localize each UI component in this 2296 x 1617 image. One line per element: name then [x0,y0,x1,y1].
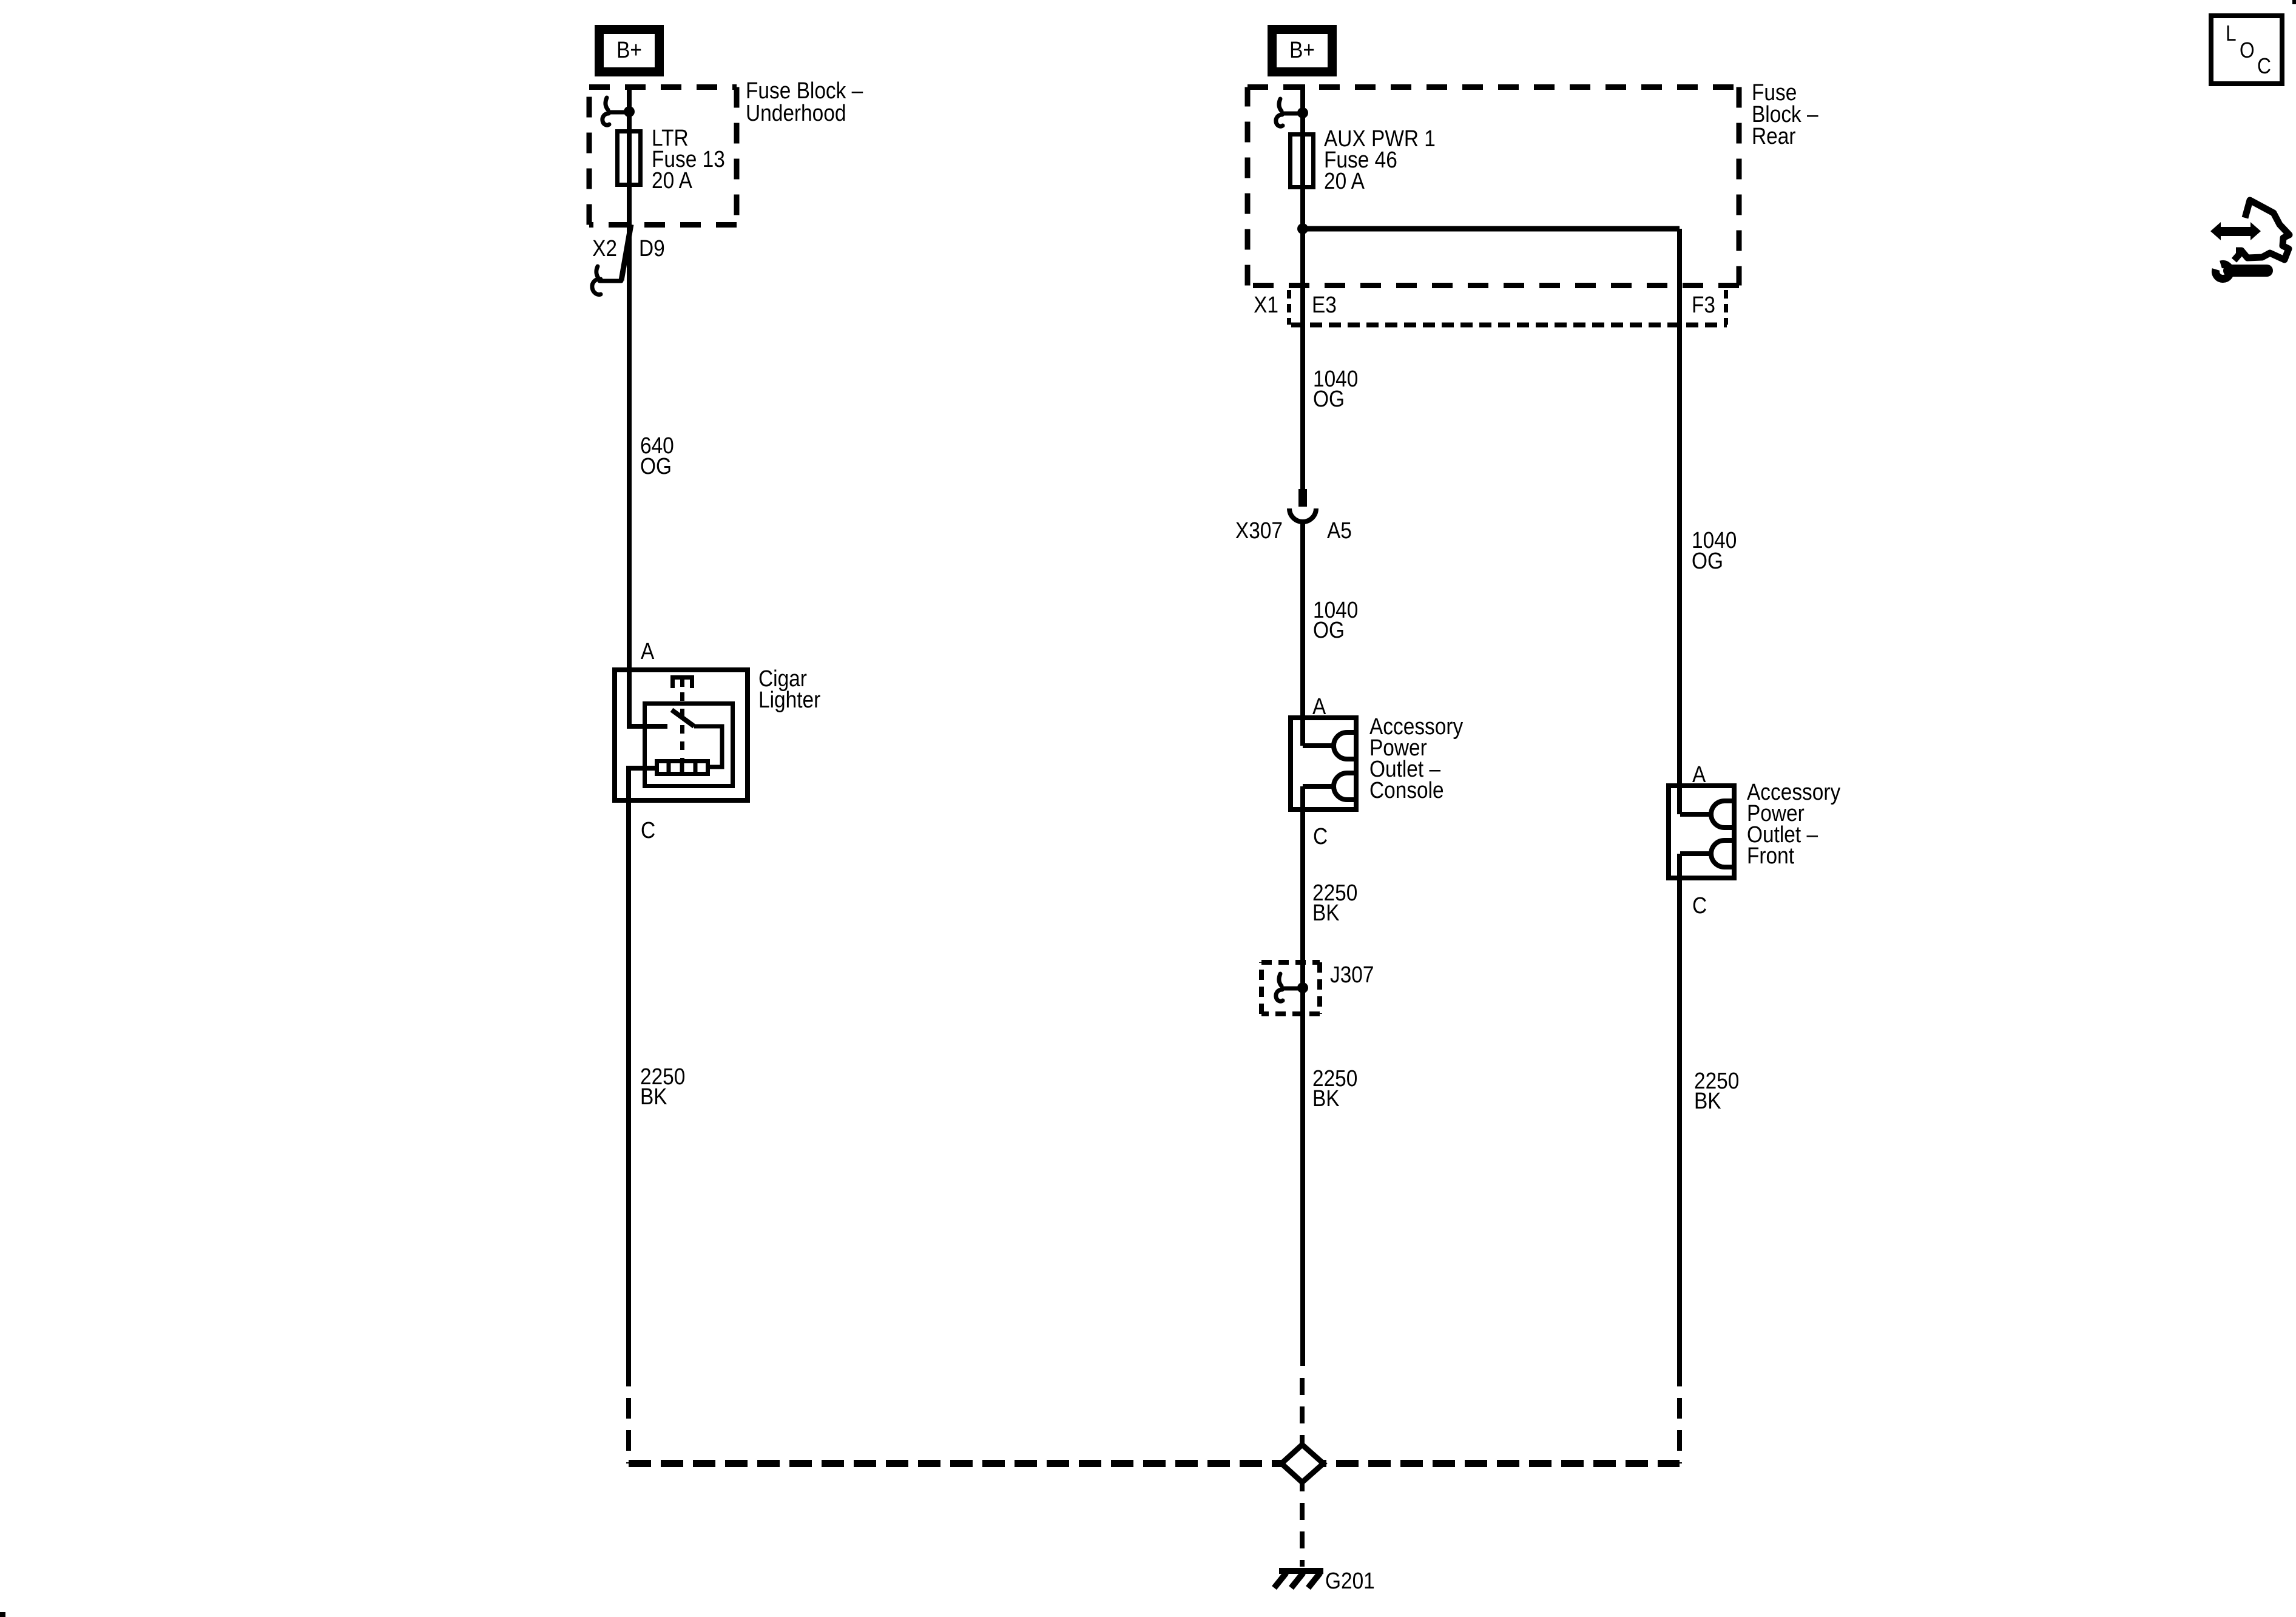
accessory power outlet - front [1669,786,1734,878]
svg-text:Front: Front [1747,843,1794,868]
svg-text:BK: BK [640,1084,667,1109]
svg-text:D9: D9 [639,235,665,261]
dashed ground wire segment (right vertical) [1677,1398,1682,1463]
splice J307 [1261,962,1374,1014]
wire label 1040 OG (console, lower) [1313,597,1358,643]
wire: branch to front outlet (horizontal in rear block) [1303,226,1680,232]
svg-text:OG: OG [1692,548,1723,573]
svg-text:F3: F3 [1692,292,1715,317]
accessory power outlet - console [1291,718,1356,809]
svg-text:X2: X2 [592,235,617,261]
svg-text:C: C [2257,54,2271,78]
wire label 1040 OG (front) [1692,527,1737,573]
svg-text:C: C [1692,893,1707,918]
wire: B+ rear feed vertical (upper) [1300,84,1305,489]
wire label 640 OG [640,433,674,479]
cigar lighter component [615,670,748,800]
label Fuse Block - Rear [1752,79,1818,149]
label Fuse Block - Underhood [746,78,863,126]
wire label 2250 BK (console, lower) [1312,1065,1357,1111]
wire: front outlet to ground (right vertical, lower) [1677,854,1682,1386]
fuse block - rear dashed outline [1248,87,1739,286]
svg-text:X307: X307 [1235,518,1283,543]
label Accessory Power Outlet - Front [1747,779,1840,868]
service information icon (arrows and wrench) [2210,200,2289,279]
svg-text:Rear: Rear [1752,123,1796,149]
connector X307 pin A5 (in-line) [1235,489,1352,543]
svg-text:B+: B+ [616,37,642,62]
svg-text:G201: G201 [1325,1568,1375,1593]
node: ground splice diamond [1281,1445,1323,1482]
svg-text:OG: OG [640,453,672,479]
LOC reference box [2211,16,2282,84]
wire label 2250 BK (front) [1694,1068,1739,1113]
wire: B+ feed to cigar lighter (left vertical) [629,84,667,726]
svg-text:J307: J307 [1330,962,1374,987]
scan speck bottom left [0,1612,5,1617]
power symbol B+ (left, underhood feed) [599,30,660,72]
label Cigar Lighter [758,666,820,712]
connector row X1 (E3 / F3) dotted outline [1254,290,1727,325]
dashed ground wire segment (left vertical) [626,1398,631,1463]
svg-text:O: O [2240,38,2255,62]
dashed ground wire segment (below diamond) [1300,1482,1305,1567]
wire: rear block to front outlet (right vertical, upper) [1677,229,1682,814]
ground symbol G201 [1274,1568,1375,1593]
svg-text:BK: BK [1312,1085,1340,1111]
wire label 2250 BK (left) [640,1064,685,1109]
terminal clip at underhood junction [603,98,629,125]
scan speck top right [2292,0,2296,4]
wire: console outlet to ground [1300,786,1305,1366]
fuse block - underhood dashed outline [589,87,737,225]
svg-text:X1: X1 [1254,292,1278,317]
dashed ground wire segment (center vertical, above diamond) [1300,1378,1305,1445]
svg-text:E3: E3 [1312,292,1337,317]
node: junction dot in rear fuse block (top) [1297,107,1308,118]
svg-text:OG: OG [1313,617,1345,643]
svg-text:Console: Console [1369,777,1444,803]
connector X2 pin D9 (pass-through) [592,224,665,294]
svg-text:Underhood: Underhood [746,100,846,126]
node: junction dot to front outlet branch [1297,223,1308,234]
fuse AUX PWR 1 Fuse 46 20 A [1291,126,1436,194]
dashed ground distribution wire (horizontal) [629,1460,1680,1467]
svg-text:OG: OG [1313,386,1345,411]
svg-text:C: C [641,817,655,843]
svg-text:A5: A5 [1327,518,1352,543]
wire: cigar lighter to ground (left vertical) [626,780,631,1386]
svg-text:20 A: 20 A [652,167,692,193]
wire label 2250 BK (console, upper) [1312,880,1357,925]
terminal clip at rear junction [1276,99,1303,126]
svg-text:BK: BK [1312,900,1340,925]
svg-text:20 A: 20 A [1324,168,1365,194]
label Accessory Power Outlet - Console [1369,714,1463,803]
svg-text:BK: BK [1694,1088,1721,1113]
svg-text:C: C [1313,823,1328,849]
svg-text:B+: B+ [1289,37,1315,62]
svg-text:L: L [2226,21,2237,46]
wire: X307 to console outlet [1300,522,1305,746]
svg-text:Lighter: Lighter [758,687,820,712]
wire label 1040 OG (console, upper) [1313,366,1358,411]
fuse LTR Fuse 13 20 A [618,125,725,193]
power symbol B+ (center, rear feed) [1272,30,1332,72]
node: junction dot in underhood fuse block [624,106,635,117]
svg-text:A: A [641,638,654,664]
